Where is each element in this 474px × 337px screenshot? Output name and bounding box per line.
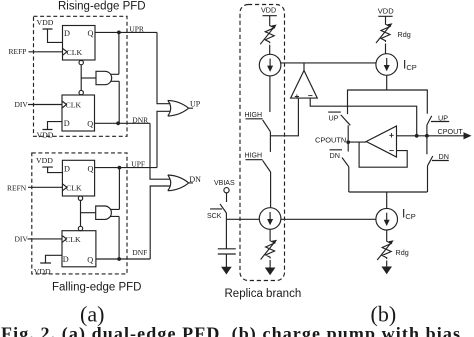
svg-text:UP: UP [190,100,201,109]
svg-text:D: D [63,255,69,264]
svg-text:HIGH: HIGH [245,112,263,119]
switch UPbar [328,112,350,125]
wire CPOUTN to buffer output [348,141,366,143]
switch DNbar [330,142,349,167]
current source I4 (ICP down) (current source) [376,208,398,230]
wire bridge bottom to I4 [386,192,388,208]
wire cap to VSS [225,254,227,267]
wire bridge bottom rail [349,191,428,193]
svg-text:VBIAS: VBIAS [214,180,235,187]
wire AND1 input from Q2 [111,81,120,123]
FF3 reset bubble [78,196,82,200]
svg-text:Fig. 2. (a) dual-edge PFD, (b): Fig. 2. (a) dual-edge PFD, (b) charge pu… [1,324,460,337]
wire bias rail from I1 to ICP [281,62,376,64]
wire resistor to current source [269,45,271,55]
wire AND1 output to reset line [81,77,96,79]
wire I2 to variable resistor [269,229,271,239]
svg-text:ICP: ICP [402,207,416,222]
wire Rdg to ICP source [386,44,387,54]
svg-text:VDD: VDD [37,131,54,140]
wire HIGH2 down to I2 [270,172,272,208]
FF4 clock wedge [62,235,67,242]
AND gate G1 (reset) [96,71,112,84]
svg-text:ICP: ICP [403,58,417,73]
FF1 clock wedge [63,48,68,55]
node junction A1- / CPOUT [415,134,419,138]
wire AND2 input from Q4 [110,216,119,259]
svg-text:DNR: DNR [132,115,148,124]
svg-text:DN: DN [439,152,449,161]
wire resistor to VSS arrow [269,260,271,268]
wire OR1 output UP [189,107,193,109]
op-amp A2 (unity-gain buffer) [366,126,396,157]
node junction Q2/AND1 [116,121,120,125]
wire A1 output to bias rail [303,63,305,71]
wire Rdg to VSS [386,261,388,268]
dashed box falling-edge PFD [32,153,127,274]
FF2 reset bubble [79,90,83,94]
wire FF1 Q to UPR [95,31,157,33]
wire A1 - input to CPOUT [310,98,417,136]
svg-text:VDD: VDD [37,18,54,27]
svg-text:UPF: UPF [131,159,145,168]
wire CPOUT line from A2 + input [397,135,465,137]
svg-text:DIV: DIV [15,235,29,244]
svg-text:VDD: VDD [378,7,394,16]
arrowhead CPOUT output [464,132,472,139]
svg-text:Rdg: Rdg [396,248,409,257]
flip-flop FF2 (rising, DIV) [62,95,95,131]
node CPOUTN [346,140,350,144]
switch DN [427,136,449,166]
wire REFP input [29,51,63,53]
svg-text:DNF: DNF [132,248,147,257]
svg-text:Q: Q [88,29,94,38]
wire bottom rail (SCK to I2) [226,218,259,220]
svg-text:SCK: SCK [207,213,222,220]
node junction UP switch / CPOUT [425,134,429,138]
svg-text:CLK: CLK [67,48,83,57]
wire DNbar to bridge bottom rail [348,167,350,192]
svg-text:D: D [64,29,70,38]
svg-text:DIV: DIV [15,100,29,109]
wire SCK node to rail and cap [225,213,227,249]
node junction Q3/AND2 [118,166,122,170]
current source I2 (replica down) (current source) [259,208,281,230]
wire I3 down to bridge top rail [386,75,388,90]
wire DNF to OR2 bottom input [150,186,170,259]
OR gate UP [168,100,189,116]
svg-text:VDD: VDD [34,267,51,276]
wire VBIAS to switch [226,193,228,202]
VDD supply symbol (top of FF1) [43,29,63,42]
capacitor C1 [218,249,236,254]
svg-text:CPOUT: CPOUT [438,127,464,136]
dashed rounded box: replica branch [240,5,285,281]
dashed box rising-edge PFD [34,16,128,136]
switch HIGH 1 [246,119,271,132]
wire FF2 Q to DNR [95,122,151,124]
AND gate G2 (reset) [96,206,112,219]
svg-text:Q: Q [87,256,93,265]
svg-text:D: D [64,165,70,174]
wire FF3 Q to UPF [95,167,157,169]
wire bridge top rail [348,90,428,114]
VDD supply symbol (ICP top) [378,16,392,23]
current source I3 (ICP up) (current source) [376,54,398,76]
VDD supply symbol (top of FF3) [42,167,62,173]
svg-text:UPR: UPR [129,24,144,33]
svg-text:DN: DN [189,175,201,184]
FF3 clock wedge [62,184,67,191]
wire AND2 output to reset line [81,212,96,214]
svg-text:Rising-edge PFD: Rising-edge PFD [58,0,146,12]
svg-text:CPOUTN: CPOUTN [315,136,346,145]
svg-text:UP: UP [329,114,339,123]
VSS terminal (cap) (down arrow) [221,267,232,275]
wire AND2 input from Q3 [110,168,119,210]
VSS terminal (ICP) (down arrow) [381,267,392,275]
wire A1 + input to replica node [270,98,298,136]
op-amp A1 (bias error amplifier) [291,71,318,99]
wire reset line FF3-FF4 [80,201,82,227]
svg-text:Q: Q [87,119,93,128]
wire A2 feedback loop [359,142,407,167]
wire DNR vertical to OR2 top input [150,123,171,179]
wire AND1 input from Q1 [111,32,119,74]
variable resistor (replica degeneration) [265,24,274,43]
wire HIGH1 to HIGH2 with tap to amp + [269,132,271,152]
FF2 clock wedge [62,101,67,108]
svg-text:Falling-edge PFD: Falling-edge PFD [52,282,141,294]
wire I4 to Rdg bottom [386,230,388,240]
VDD supply symbol (replica top) [263,16,277,25]
wire FF4 Q to DNF [96,258,150,260]
wire UPF to OR1 bottom input [157,111,171,167]
wire DIV input [28,104,62,106]
terminal VBIAS [224,188,229,193]
svg-text:VDD: VDD [261,6,276,15]
svg-text:Q: Q [88,165,94,174]
svg-text:CLK: CLK [66,101,82,110]
FF1 reset bubble [79,60,83,64]
svg-text:UP: UP [438,113,448,122]
node junction Q1/AND1 [117,31,121,35]
svg-text:DN: DN [330,151,340,160]
variable resistor Rdg (top) [381,23,390,42]
flip-flop FF1 (rising, REFP) [63,26,96,61]
svg-text:D: D [64,119,70,128]
wire OR2 output DN [189,182,193,184]
wire DIV input (falling) [28,238,63,240]
svg-text:Rdg: Rdg [398,30,411,39]
wire reset line FF1-FF2 [80,65,82,91]
wire UPbar to CPOUTN node [347,125,349,140]
VDD supply symbol (bottom of FF4) [40,255,62,263]
svg-text:REFP: REFP [9,47,27,56]
switch SCK [210,204,226,213]
wire UPR vertical to OR1 top input [157,32,171,103]
svg-text:CLK: CLK [65,235,81,244]
wire DN switch to bridge bottom rail [427,166,429,192]
switch HIGH 2 [246,160,271,172]
svg-text:CLK: CLK [66,184,82,193]
node junction Q4/AND2 [117,257,121,261]
wire bottom rail (I2 to I4) [281,218,376,220]
flip-flop FF3 (falling, REFN) [62,160,94,196]
current source I1 (replica up) (current source) [259,54,281,76]
svg-text:REFN: REFN [7,184,27,193]
flip-flop FF4 (falling, DIV) [62,231,96,267]
svg-text:Replica branch: Replica branch [225,288,302,300]
VSS terminal (replica) (down arrow) [265,268,276,276]
wire REFN input [28,186,62,188]
variable resistor Rdg (bottom) [382,240,391,259]
svg-text:HIGH: HIGH [245,153,263,160]
OR gate DN [168,175,189,191]
wire replica column: I1 to HIGH switch 1 [269,76,271,112]
variable resistor (replica bottom) [266,240,275,259]
VDD supply symbol (bottom of FF2) [43,122,63,130]
svg-text:VDD: VDD [36,156,53,165]
switch UP [427,116,449,136]
FF4 reset bubble [78,226,82,230]
